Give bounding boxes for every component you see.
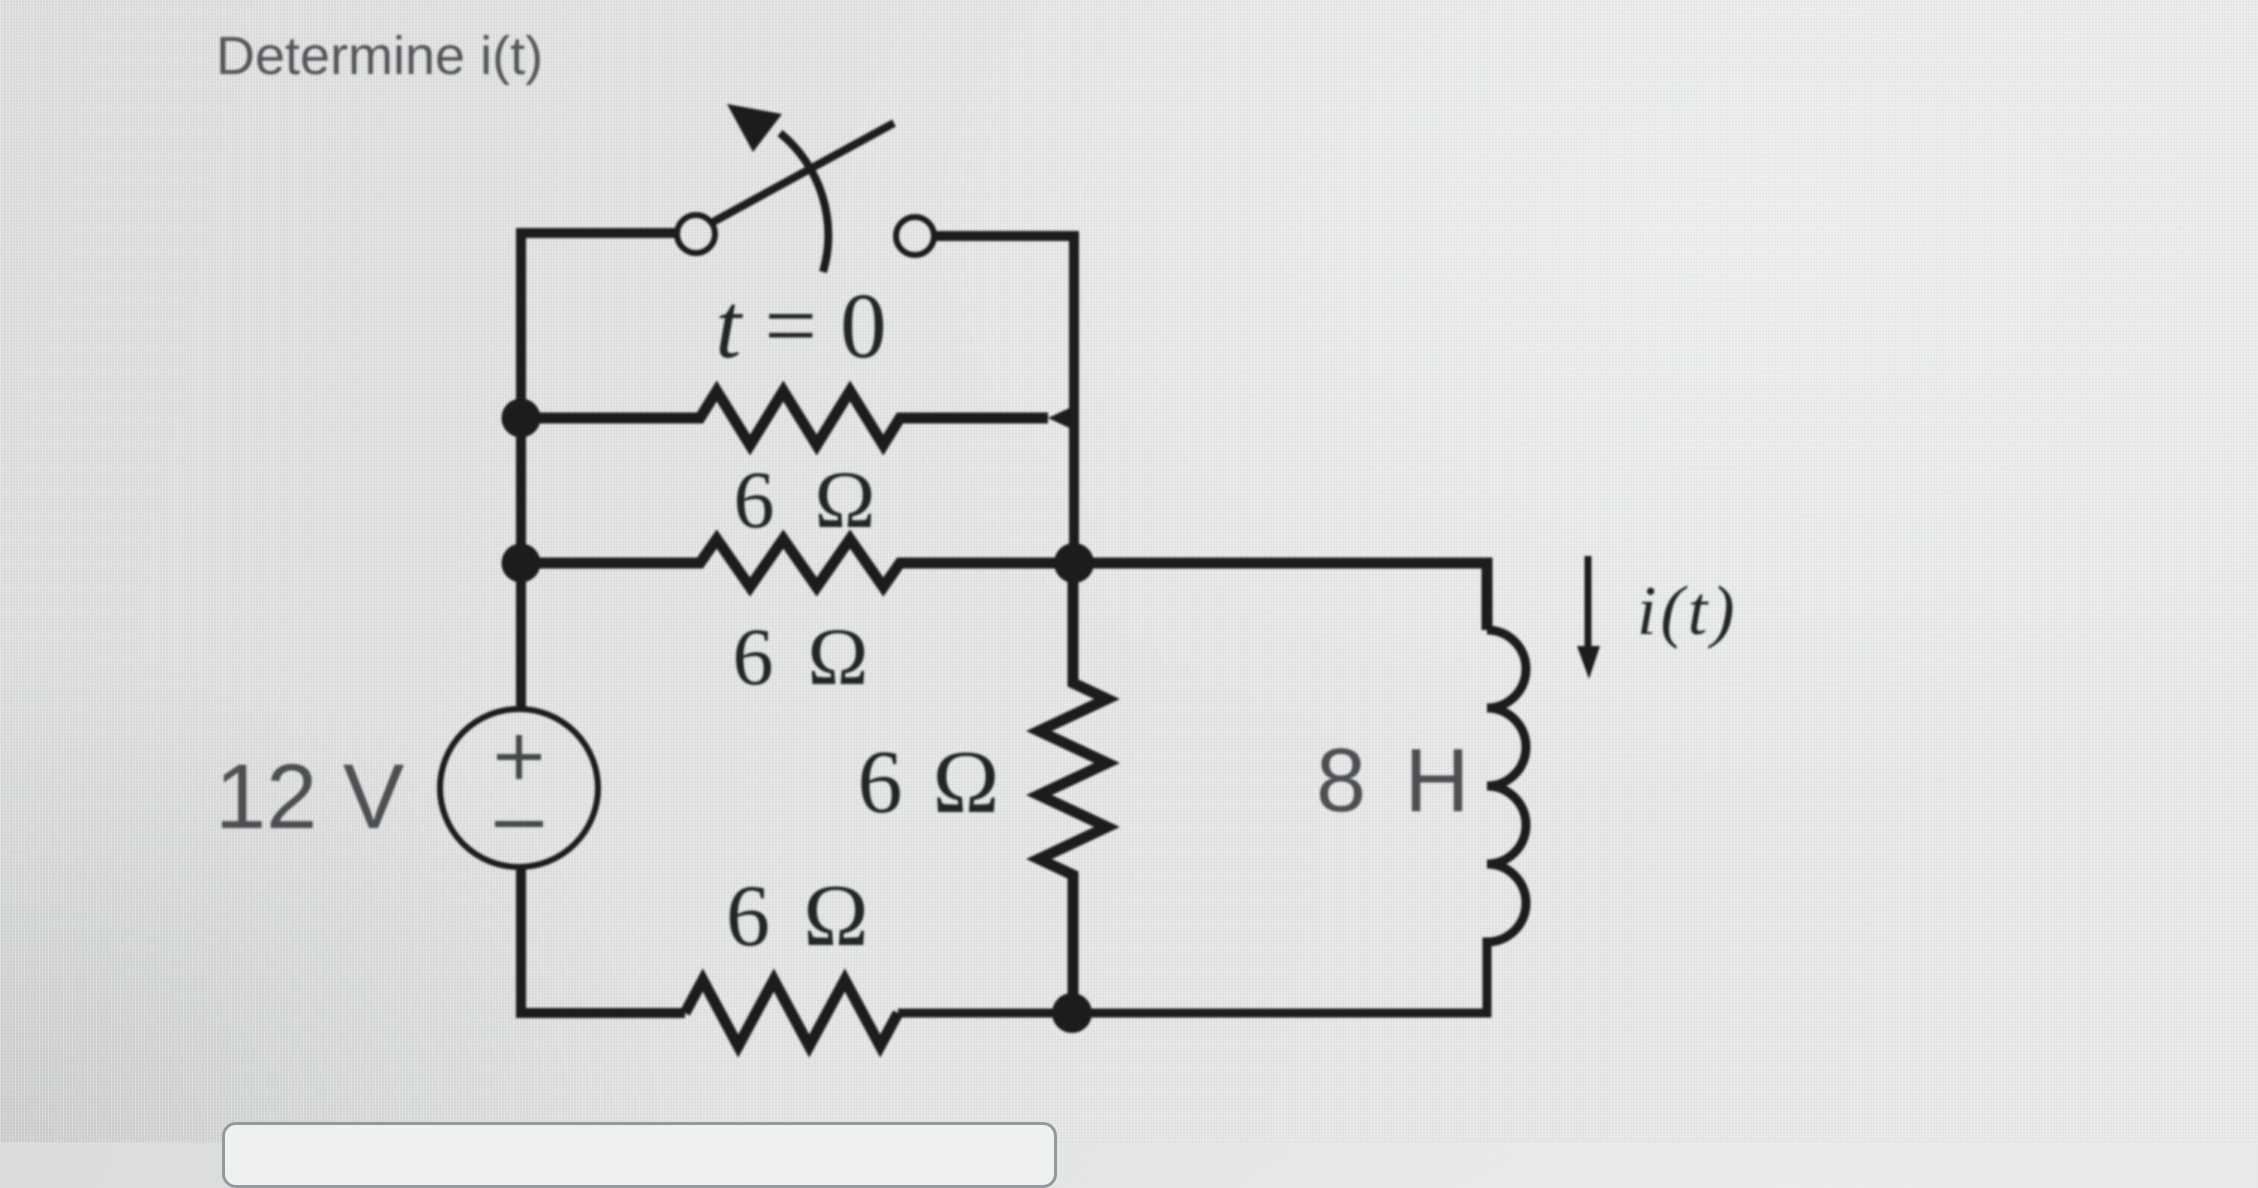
- V1 plus sign: [497, 735, 541, 779]
- inductor L1 (8 H): [898, 630, 1526, 1013]
- answer input box (partially visible): [222, 1122, 1057, 1188]
- svg-text:Ω: Ω: [808, 611, 869, 702]
- svg-text:H: H: [1405, 731, 1470, 831]
- resistor R1 (6 ohm, branch under switch): [521, 391, 1048, 445]
- svg-text:12 V: 12 V: [215, 746, 404, 848]
- svg-text:t = 0: t = 0: [715, 275, 886, 378]
- resistor R4 (6 ohm, bottom branch): [685, 980, 898, 1046]
- svg-text:Ω: Ω: [933, 733, 1000, 832]
- svg-text:6: 6: [733, 611, 774, 702]
- svg-text:6: 6: [734, 454, 775, 545]
- resistor R2 (6 ohm, middle branch): [521, 539, 1487, 630]
- node: taper joint into mid rail: [1048, 404, 1078, 432]
- wire: switch right terminal to top-right corner, down mid rail: [935, 236, 1074, 563]
- svg-text:Determine i(t): Determine i(t): [216, 26, 543, 86]
- switch SW1 left terminal: [677, 215, 715, 253]
- node: junction dot bottom rail: [1052, 993, 1092, 1033]
- svg-text:Ω: Ω: [815, 454, 876, 545]
- resistor R3 (6 ohm, vertical): [1039, 563, 1107, 1013]
- svg-text:6: 6: [858, 733, 903, 832]
- voltage source V1 (12 V): [440, 709, 598, 867]
- node: junction dot mid rail / branch 3: [1054, 543, 1094, 583]
- current arrow i(t): [1585, 556, 1592, 652]
- svg-text:8: 8: [1316, 731, 1366, 831]
- svg-text:Ω: Ω: [803, 868, 868, 965]
- node: junction dot left rail / branch 2: [502, 399, 541, 438]
- switch SW1 motion arc: [780, 133, 828, 272]
- wire: top-left horizontal + left vertical rail: [521, 233, 677, 710]
- wire: left bottom rail from source down to bottom-left corner: [521, 866, 685, 1013]
- node: junction dot left rail / branch 3: [502, 544, 541, 583]
- svg-text:6: 6: [726, 868, 770, 965]
- switch SW1 right terminal: [896, 217, 934, 255]
- V1 minus sign: [495, 821, 543, 827]
- svg-text:i(t): i(t): [1637, 573, 1739, 650]
- switch SW1 blade: [713, 123, 894, 222]
- switch SW1 motion arrowhead: [727, 104, 782, 152]
